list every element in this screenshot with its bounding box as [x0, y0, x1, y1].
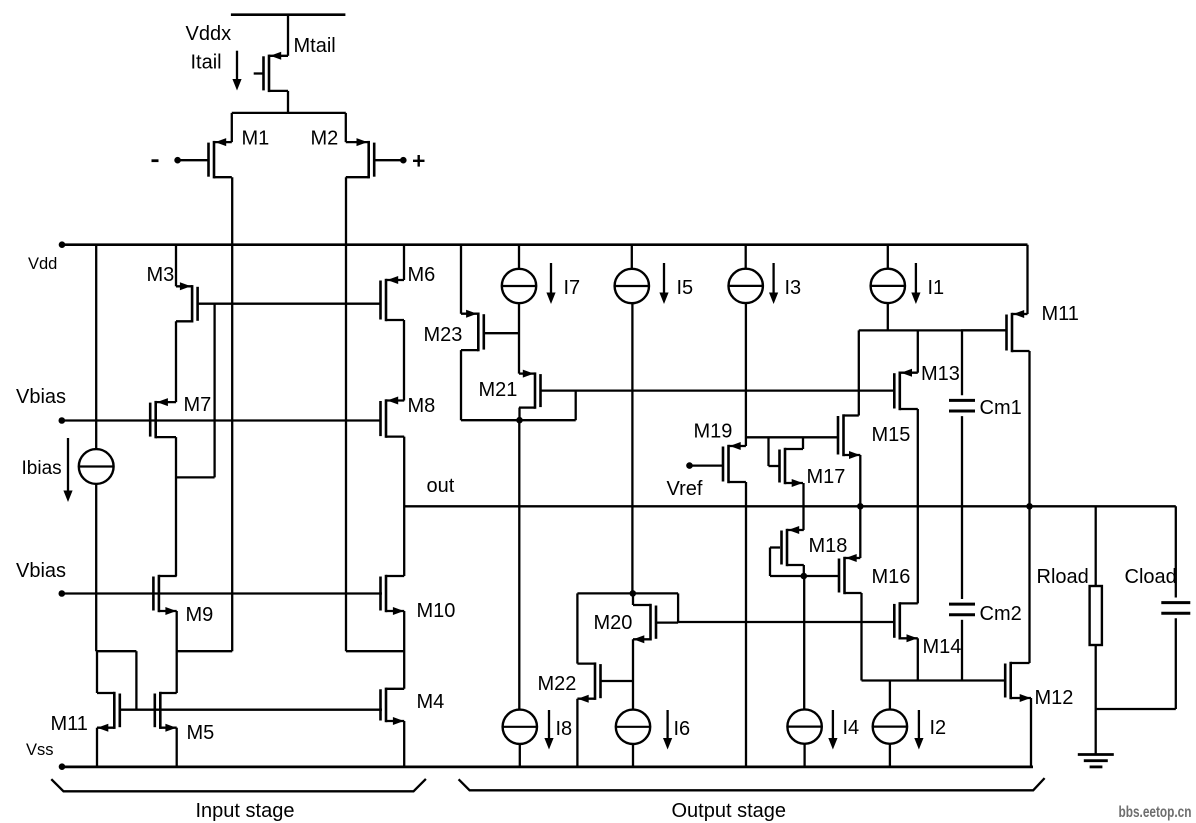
transistor M1 [209, 138, 232, 178]
svg-text:M22: M22 [538, 673, 577, 695]
wire: M9-M1 link [177, 650, 233, 652]
wire: M22 source to Vss [576, 699, 578, 767]
capacitor Cload [1161, 506, 1190, 709]
transistor M9 [153, 575, 176, 615]
svg-text:M20: M20 [594, 612, 633, 634]
svg-text:M11: M11 [51, 713, 88, 735]
transistor M12 [1005, 662, 1031, 702]
wire: M21 gate diode hook [575, 390, 577, 420]
wire: M23-M21 node line [461, 419, 576, 421]
wire: M15 source to out rail [859, 455, 861, 558]
label M19 [694, 421, 733, 443]
svg-text:M11: M11 [1042, 303, 1079, 325]
wire: ground stem [1095, 709, 1097, 755]
node non-inverting input [400, 157, 407, 164]
wire: I5 stem [631, 245, 633, 269]
current arrow I5 [659, 263, 668, 304]
wire: M21 source step [518, 408, 520, 421]
svg-text:M1: M1 [242, 128, 270, 150]
transistor M4 [381, 688, 405, 725]
current source Ibias [79, 449, 114, 484]
wire: I7 to M21 drain [518, 303, 520, 373]
label M15 [872, 424, 911, 446]
label Rload [1037, 566, 1089, 588]
svg-text:M15: M15 [872, 424, 911, 446]
label M14 [923, 636, 962, 658]
wire: out rail [404, 505, 1176, 507]
wire: M1 gate lead [178, 159, 209, 161]
wire: M4 source to Vss [403, 721, 405, 767]
current arrow I2 [914, 710, 923, 750]
wire: M11 source to Vss [96, 728, 98, 767]
current arrow I7 [546, 263, 555, 304]
label Vss [26, 741, 54, 759]
svg-text:Rload: Rload [1037, 566, 1089, 588]
wire: bottom node line [862, 679, 1005, 681]
svg-text:Itail: Itail [191, 52, 222, 74]
label I4 [843, 717, 860, 739]
wire: M7 source down to M9 [175, 437, 177, 576]
svg-text:I7: I7 [564, 277, 581, 299]
wire: Vbias upper rail [62, 419, 380, 421]
wire: middle column to I8 [518, 420, 520, 709]
wire: differential pair tail bar [232, 112, 346, 114]
node Vbias lower terminal [59, 590, 66, 597]
wire: Mtail drain to tail node [287, 91, 289, 113]
wire: M15 drain up [858, 330, 860, 415]
wire: Mtail source to rail [287, 15, 289, 56]
svg-text:Mtail: Mtail [294, 35, 336, 57]
wire: M3 source to Vdd [175, 245, 177, 287]
wire: Vddx supply rail [231, 13, 346, 16]
wire: M2 gate lead [374, 159, 403, 161]
wire: M1 drain column [231, 177, 233, 651]
transistor M21 [519, 370, 541, 409]
wire: Vbias lower rail [62, 592, 382, 594]
node M20 drain junction [630, 590, 637, 597]
current arrow Ibias [63, 438, 72, 502]
svg-text:M13: M13 [921, 363, 960, 385]
label M12 [1035, 687, 1074, 709]
current source I3 [729, 269, 763, 303]
svg-text:I8: I8 [556, 718, 573, 740]
transistor M3 [176, 282, 198, 322]
svg-text:M18: M18 [809, 535, 848, 557]
label Input stage [196, 800, 295, 822]
transistor M7 [150, 398, 176, 438]
label out [427, 475, 455, 497]
wire: M3-M6 gate line [198, 303, 380, 305]
label M21 [479, 379, 518, 401]
svg-text:M7: M7 [184, 394, 212, 416]
wire: Ibias column lower [95, 484, 97, 651]
wire: M18 column to I4 [803, 576, 805, 709]
wire: I5 column to M20 [631, 303, 633, 593]
label I5 [677, 277, 694, 299]
transistor M8 [381, 397, 405, 438]
label M2 [311, 128, 339, 150]
wire: Vdd rail [62, 243, 1028, 246]
transistor Mtail [254, 52, 288, 92]
wire: M14 source down [917, 638, 919, 680]
current source I7 [502, 269, 536, 303]
wire: M21-M13 gate line [541, 389, 895, 391]
svg-text:Vdd: Vdd [28, 255, 57, 273]
node Vdd terminal [59, 241, 66, 248]
label M18 [809, 535, 848, 557]
node Vss terminal [59, 763, 66, 770]
current arrow Itail [232, 51, 241, 91]
wire: M3 drain to M7 [175, 321, 177, 402]
wire: I2 to Vss [889, 744, 891, 767]
svg-text:Ibias: Ibias [22, 458, 62, 479]
label M9 [186, 604, 214, 626]
current source I6 [616, 710, 650, 744]
label M3 [147, 264, 175, 286]
svg-text:Input stage: Input stage [196, 800, 295, 822]
wire: M6 drain to M8 [403, 320, 405, 401]
svg-text:Cm1: Cm1 [980, 397, 1022, 419]
wire: top node line [859, 329, 1007, 331]
wire: M5 source to Vss [176, 728, 178, 767]
wire: I3 stem [745, 245, 747, 269]
label I2 [930, 717, 947, 739]
wire: M23 drain down [460, 350, 462, 420]
wire: M10-M2 link [346, 650, 404, 652]
wire: M2 drain column [345, 177, 347, 651]
label M10 [417, 600, 456, 622]
wire: M20 source down [632, 639, 634, 709]
wire: I4 to Vss [803, 744, 805, 767]
label Mtail [294, 35, 336, 57]
current source I2 [873, 709, 907, 743]
wire: M11 drain up [96, 651, 98, 693]
label M8 [408, 395, 436, 417]
node out rail junction right [1026, 503, 1033, 510]
label I8 [556, 718, 573, 740]
wire: M13 drain up [917, 330, 919, 372]
transistor M22 [577, 662, 600, 702]
node out rail junction left [857, 503, 864, 510]
transistor M20 [633, 604, 656, 644]
transistor M16 [839, 554, 862, 594]
wire: I6 to Vss [632, 744, 634, 766]
wire: out rail to M12 drain [1028, 506, 1030, 663]
label I6 [674, 718, 691, 740]
label M17 [807, 466, 846, 488]
label M5 [187, 722, 215, 744]
svg-text:M23: M23 [424, 324, 463, 346]
transistor M17 [780, 448, 804, 487]
label - input [152, 159, 159, 162]
wire: M11 source to out rail [1028, 351, 1030, 506]
svg-text:Cload: Cload [1125, 566, 1177, 588]
label Ibias [22, 458, 62, 479]
transistor M6 [381, 276, 405, 321]
svg-text:M12: M12 [1035, 687, 1074, 709]
brace Input stage [51, 779, 426, 791]
transistor M11 input-stage [97, 692, 120, 732]
label M16 [872, 566, 911, 588]
wire: M22 gate lead [601, 680, 634, 682]
svg-text:Cm2: Cm2 [980, 603, 1022, 625]
svg-text:out: out [427, 475, 455, 497]
current arrow I1 [911, 263, 920, 304]
svg-text:Vref: Vref [667, 478, 703, 500]
node Vbias upper terminal [59, 417, 66, 424]
node Vref terminal [686, 462, 693, 469]
wire: I1 stem [887, 245, 889, 269]
transistor M19 [723, 442, 746, 483]
wire: M11 diode hook [96, 651, 136, 710]
label Vdd [28, 255, 57, 273]
svg-text:M4: M4 [417, 691, 445, 713]
wire: M3 gate to M7 source jog [176, 304, 215, 478]
svg-text:M21: M21 [479, 379, 518, 401]
svg-text:I1: I1 [928, 277, 945, 299]
label Cm1 [980, 397, 1022, 419]
node inverting input [174, 157, 181, 164]
capacitor Cm1 [949, 330, 975, 506]
svg-text:M19: M19 [694, 421, 733, 443]
label Cload [1125, 566, 1177, 588]
wire: M20-M14 gate line [678, 621, 894, 623]
svg-text:I3: I3 [785, 277, 802, 299]
wire: M11-M5-M4 gate row [120, 709, 382, 711]
transistor M15 [838, 414, 860, 459]
svg-text:I4: I4 [843, 717, 860, 739]
svg-text:Vbias: Vbias [16, 560, 66, 582]
label M22 [538, 673, 577, 695]
wire: M17 drain up [802, 437, 804, 449]
svg-text:M6: M6 [408, 264, 436, 286]
wire: M20 node line [577, 592, 678, 594]
svg-text:bbs.eetop.cn: bbs.eetop.cn [1119, 804, 1192, 821]
wire: M22 drain up [576, 593, 578, 663]
transistor M11 output-stage [1007, 310, 1030, 352]
wire: I8 to Vss [519, 744, 521, 766]
wire: M12 source to Vss [1030, 698, 1032, 767]
label Vbias upper [16, 386, 66, 408]
label I7 [564, 277, 581, 299]
wire: M17 source down to M18 [802, 483, 804, 530]
wire: M2 source up [345, 113, 347, 142]
transistor M13 [894, 369, 918, 411]
svg-text:M2: M2 [311, 128, 339, 150]
label Vref [667, 478, 703, 500]
wire: I3 column to M19 [745, 303, 747, 446]
wire: load bottom tie [1096, 708, 1176, 710]
svg-text:Output stage: Output stage [672, 800, 787, 822]
transistor M10 [381, 575, 405, 615]
wire: M19 source column to Vss [745, 482, 747, 767]
wire: I1 to node [887, 303, 889, 330]
wire: M19-M15 node line [746, 436, 838, 438]
wire: I2 stem [889, 681, 891, 710]
label Output stage [672, 800, 787, 822]
transistor M5 [155, 692, 177, 732]
svg-text:I6: I6 [674, 718, 691, 740]
transistor M14 [894, 602, 918, 642]
label M13 [921, 363, 960, 385]
wire: M20 gate hook [656, 593, 678, 622]
label M1 [242, 128, 270, 150]
label Itail [191, 52, 222, 74]
svg-text:M3: M3 [147, 264, 175, 286]
wire: M16 source down [860, 593, 862, 681]
label M11 input-stage [51, 713, 88, 735]
wire: M1 source up [231, 113, 233, 142]
current source I1 [871, 269, 905, 303]
svg-text:M16: M16 [872, 566, 911, 588]
wire: M9 source down [176, 611, 178, 693]
transistor M2 [346, 138, 374, 178]
wire: M23 gate lead [484, 332, 519, 334]
label M11 output-stage [1042, 303, 1079, 325]
svg-text:Vbias: Vbias [16, 386, 66, 408]
svg-text:Vss: Vss [26, 741, 54, 759]
svg-text:M9: M9 [186, 604, 214, 626]
label M7 [184, 394, 212, 416]
wire: Vdd rail drop to M11 [1026, 245, 1028, 314]
brace Output stage [459, 778, 1045, 790]
label I1 [928, 277, 945, 299]
wire: I7 stem [518, 245, 520, 269]
current arrow I3 [769, 263, 778, 304]
svg-text:I2: I2 [930, 717, 947, 739]
wire: M10 source down [403, 611, 405, 689]
svg-text:I5: I5 [677, 277, 694, 299]
svg-text:M10: M10 [417, 600, 456, 622]
watermark bbs.eetop.cn [1119, 804, 1192, 821]
label I3 [785, 277, 802, 299]
wire: M18 node line [770, 575, 839, 577]
node M21 source junction [516, 417, 523, 424]
label Vddx [186, 23, 232, 45]
transistor M18 [782, 526, 804, 566]
current arrow I8 [544, 710, 553, 750]
wire: M20 drain up [632, 593, 634, 605]
current source I5 [615, 269, 649, 303]
capacitor Cm2 [949, 506, 975, 680]
ground [1078, 755, 1114, 767]
svg-text:Vddx: Vddx [186, 23, 232, 45]
svg-text:M14: M14 [923, 636, 962, 658]
wire: M8 source down to M10 [403, 437, 405, 576]
wire: M18 source step [803, 565, 805, 576]
label Cm2 [980, 603, 1022, 625]
wire: M11 gate lead [961, 329, 1006, 331]
label Vbias lower [16, 560, 66, 582]
svg-text:M17: M17 [807, 466, 846, 488]
wire: M18 gate hook [770, 548, 780, 577]
wire: M23 source to Vdd [460, 245, 462, 314]
label M4 [417, 691, 445, 713]
wire: M13-M14 column [917, 409, 919, 603]
svg-text:M5: M5 [187, 722, 215, 744]
wire: Vss rail [62, 766, 1033, 769]
wire: M6 source to Vdd [403, 245, 405, 280]
current source I8 [503, 710, 537, 744]
svg-text:M8: M8 [408, 395, 436, 417]
transistor M23 [461, 310, 484, 352]
current source I4 [787, 709, 821, 743]
wire: Ibias column upper [95, 245, 97, 450]
wire: M19 gate lead [690, 464, 724, 466]
wire: M17 gate hook [769, 437, 780, 466]
label M6 [408, 264, 436, 286]
current arrow I4 [828, 710, 837, 750]
label + input [413, 155, 425, 167]
label M23 [424, 324, 463, 346]
label M20 [594, 612, 633, 634]
node M18 source junction [801, 573, 808, 580]
current arrow I6 [663, 710, 672, 750]
resistor Rload [1090, 506, 1102, 709]
